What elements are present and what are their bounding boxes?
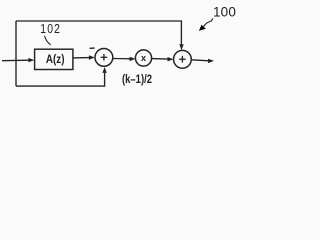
svg-text:A(z): A(z) [46,53,65,66]
wire top feedforward [16,21,181,47]
arrowhead output [208,59,214,63]
wire bottom feedback [16,72,105,87]
multiplier [135,50,151,66]
svg-text:100: 100 [213,5,236,20]
wire summer 1 to multiplier [113,58,131,60]
arrowhead into summer 2 left [168,57,174,61]
arrowhead of 100 leader [199,25,206,31]
minus sign at summer 1 [90,47,95,49]
arrowhead into multiplier [130,57,136,61]
svg-text:102: 102 [40,22,61,36]
plus inside summer 1 [101,54,108,61]
arrowhead into summer 2 top [179,44,183,50]
plus inside summer 2 [179,56,186,63]
arrowhead into A(z) [28,58,34,62]
leader squiggle to 100 [204,18,213,26]
svg-text:(k–1)/2: (k–1)/2 [122,73,152,86]
wire output [191,60,209,61]
wire multiplier to summer 2 [152,58,169,61]
arrowhead into summer 1 bottom [102,67,106,73]
block A(z) 102 [35,49,73,69]
svg-text:x: x [141,53,146,63]
summer U2 [174,50,192,68]
summer U1 [95,49,113,67]
wire A(z) to summer 1 [73,57,90,59]
wire input [2,59,30,62]
arrowhead into summer 1 left [89,55,95,59]
wire left vertical branch [15,21,17,86]
leader from 102 to A(z) [45,36,51,45]
